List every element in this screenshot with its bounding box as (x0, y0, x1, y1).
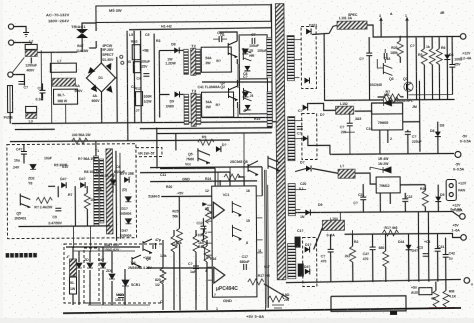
capacitor C12 (200, 226, 206, 229)
dashed box 2 (64, 244, 163, 303)
wire (88, 304, 150, 306)
diode D16 (76, 263, 82, 268)
capacitor C42 (443, 255, 449, 258)
capacitor C0 (18, 81, 24, 84)
diode D111 (305, 268, 310, 274)
wire (261, 167, 263, 196)
resistor R12 (136, 92, 143, 106)
wire (313, 227, 322, 249)
wire return rail (324, 32, 454, 100)
wire verticals into IC top (217, 172, 219, 186)
diode D107 (306, 165, 311, 171)
diode D102 (304, 77, 309, 83)
inductor L3 (26, 106, 37, 112)
wire bus2 (10, 140, 230, 142)
wire (9, 113, 11, 124)
resistor R101 (397, 41, 403, 57)
diode D19 (109, 274, 115, 279)
resistor R38 diagonal (268, 296, 284, 302)
diode column D13 (124, 177, 129, 183)
wire H1-H2 (129, 28, 271, 30)
wire (265, 170, 268, 308)
black tab N (298, 264, 304, 277)
resistor R32 (382, 230, 398, 236)
resistor R42 (443, 291, 449, 307)
transistor Q12 (143, 239, 152, 253)
resistor R10 box (132, 45, 140, 60)
wire (74, 186, 76, 226)
capacitor C102 (366, 53, 372, 56)
thermistor NTC (70, 259, 77, 276)
wire (312, 168, 338, 173)
dashed box 2 inner (84, 248, 99, 303)
capacitor C14 (193, 266, 199, 269)
wire (115, 151, 118, 241)
wire bus (295, 211, 452, 212)
wire BL drop (65, 104, 67, 123)
capacitor C18b (384, 53, 387, 59)
wire (140, 127, 272, 130)
diode D112 (406, 245, 412, 250)
wire (229, 172, 231, 186)
wire (312, 25, 337, 34)
capacitor C4 (143, 74, 149, 77)
thermistor box BL (53, 89, 77, 104)
diode D17 (87, 263, 93, 268)
capacitor C105 (405, 132, 411, 135)
capacitor C33 (435, 249, 441, 252)
diode D7 (80, 182, 85, 188)
capacitor C40 (21, 151, 27, 154)
wire main ground bus (63, 308, 461, 313)
resistor R37 (204, 246, 210, 262)
wire (379, 130, 381, 154)
resistor R26 (205, 207, 211, 223)
wire (355, 111, 372, 114)
transformer core T4 (275, 4, 285, 280)
wire (57, 186, 59, 197)
transistor Q1 (228, 41, 237, 57)
transistor Q102 (404, 82, 413, 91)
diode D101 (306, 28, 311, 34)
transistor Q3 (243, 48, 251, 61)
wire (387, 130, 389, 143)
wire vertical right of bridge (116, 57, 118, 123)
resistor R107 (383, 97, 399, 103)
primary winding W2 (267, 92, 272, 128)
wire (14, 26, 26, 32)
transistor Q11 (20, 193, 30, 207)
transistor Q6 (243, 88, 251, 101)
terminal +5V (461, 235, 467, 241)
shield dashed box 3 (303, 237, 317, 286)
black blob (295, 237, 301, 248)
diode D18 (100, 263, 106, 268)
inductor L101 (337, 21, 367, 29)
diode D21 (243, 92, 249, 97)
wire (18, 225, 110, 228)
wire (89, 47, 96, 49)
primary winding W1 (267, 38, 272, 78)
diode D6 (61, 182, 66, 188)
capacitor C17 (244, 264, 247, 270)
wire diag to earth (12, 57, 24, 72)
wire taps S2 (295, 121, 303, 139)
connector JP1 (446, 179, 456, 200)
capacitor C32 (423, 254, 429, 257)
wire (267, 185, 270, 308)
wire Q2 emitter (237, 108, 239, 117)
core T1 (106, 149, 113, 234)
wire short (15, 128, 55, 130)
dashed box 1 (7, 144, 137, 239)
resistor R103 (429, 49, 435, 65)
wire (48, 185, 55, 187)
red mark (429, 306, 455, 308)
wire (14, 42, 31, 44)
wire (72, 226, 74, 248)
wire (147, 267, 212, 269)
wire to +12V terminal (367, 24, 460, 37)
wire (175, 133, 177, 150)
capacitor C9 (252, 38, 255, 44)
resistor R7 (36, 197, 52, 203)
AC terminal L (8, 24, 13, 29)
bridge rectifier D1 (86, 63, 115, 92)
diode D103 (303, 105, 308, 111)
wire (95, 22, 97, 31)
transistor Q9 (232, 201, 241, 215)
inductor L2 (25, 44, 37, 49)
wire taps S1 (294, 40, 301, 78)
wire (380, 193, 390, 212)
wire (73, 250, 135, 252)
diode D8 (174, 47, 179, 53)
wire (403, 121, 420, 123)
wire under T2 box (202, 81, 272, 83)
wire (180, 93, 184, 95)
wire (214, 168, 216, 186)
diode D113 (305, 209, 310, 215)
transistor Q10 (232, 225, 241, 239)
transistor Q101 (383, 63, 392, 76)
wire (159, 50, 169, 117)
shield dashed box 2 (302, 113, 317, 159)
wire (229, 167, 231, 174)
terminal -5V (330, 152, 454, 155)
diode D15 (125, 219, 131, 224)
diode D109 (435, 197, 441, 202)
inductor L103 (338, 169, 355, 178)
wire (179, 49, 183, 51)
wire (119, 153, 122, 239)
wire (400, 184, 425, 186)
secondary winding S3 (288, 184, 295, 216)
AC terminal N (9, 40, 14, 45)
ground (23, 32, 29, 36)
resistor R17 (248, 279, 264, 285)
zener ZD2 (30, 164, 36, 169)
black tab (390, 311, 397, 315)
resistor R9 (198, 139, 214, 145)
regulator U3 79M12 (376, 177, 400, 193)
wire (308, 103, 336, 110)
capacitor C16 (118, 295, 124, 298)
wire lower bus of 12V cell (409, 93, 453, 95)
secondary winding S1 (287, 36, 294, 81)
diode D108 (383, 167, 391, 173)
terminal +12V2 (460, 214, 466, 220)
wire drops (415, 37, 417, 100)
wire (159, 49, 165, 51)
resistor R105 (385, 94, 401, 100)
wire (156, 128, 158, 169)
pin stubs left (207, 205, 213, 280)
resistor R30 (350, 246, 356, 262)
switch cell box A (239, 35, 267, 79)
wire bridge bottom (101, 92, 103, 123)
IC U1 uPC494C (212, 186, 257, 297)
wire (30, 57, 32, 63)
secondary winding S2 (288, 117, 295, 161)
box R40 (419, 288, 432, 295)
AC terminal E (8, 72, 13, 77)
diode D110 (305, 246, 310, 252)
caption CJK low voltage protection (6, 253, 37, 258)
diode D103b (303, 136, 308, 142)
secondary winding S4 (288, 244, 296, 279)
wire (308, 138, 330, 154)
node 3 (380, 19, 382, 37)
dashed VR box (136, 148, 162, 157)
switch cell box B (239, 79, 267, 114)
wire (161, 195, 211, 197)
diode D7b (110, 180, 116, 185)
transistor Q2 (228, 86, 237, 100)
wire Q1 emitter (237, 64, 239, 88)
capacitor C103 (449, 64, 455, 67)
wire (355, 173, 376, 184)
resistor R31 (383, 251, 389, 267)
wire +5V bus (345, 233, 461, 238)
diode D10 (244, 66, 250, 71)
fuse F1 (7, 86, 12, 113)
wire (140, 31, 143, 123)
resistor R34 (160, 268, 166, 284)
wire (150, 180, 257, 183)
wire output bus (286, 279, 461, 282)
diode D14 (125, 197, 131, 202)
wire (126, 31, 129, 141)
wire under T3 box (202, 117, 272, 119)
wire (133, 31, 136, 123)
wire (157, 132, 272, 135)
resistor R106 (422, 191, 428, 207)
diode D20 (242, 49, 248, 54)
wire (340, 212, 352, 234)
wire taps S3 (295, 190, 306, 210)
wire bridge right (115, 77, 116, 79)
capacitor C106 (360, 197, 366, 200)
capacitor C5 (55, 208, 61, 211)
resistor R24 (224, 174, 240, 180)
capacitor C1 (40, 90, 46, 93)
wire (95, 141, 97, 156)
wire L2 columns (41, 50, 52, 123)
resistor R35 (171, 236, 177, 252)
wire (140, 171, 230, 174)
winding bars (93, 156, 98, 226)
wire box bottom-right (331, 296, 406, 312)
node circle (120, 55, 123, 58)
resistor R25 (176, 228, 182, 244)
wire (427, 212, 429, 282)
terminal out5 (464, 278, 470, 284)
capacitor C31 (370, 247, 376, 250)
wire (95, 41, 97, 48)
scr SCR1 (122, 280, 129, 286)
diode D105 (384, 100, 392, 106)
resistor R27 (201, 232, 207, 248)
wire top of box (66, 246, 140, 248)
op-amp A2 (214, 267, 225, 283)
capacitor C104 (347, 123, 353, 126)
transistor Q8 (268, 156, 280, 171)
triac (76, 29, 88, 38)
diode D106 (435, 132, 441, 137)
box aux (133, 62, 140, 73)
diode D11 (245, 105, 251, 110)
capacitor C107 (402, 199, 408, 202)
wire (370, 167, 383, 170)
inductor L104 (322, 220, 344, 230)
wire main lower bus (12, 122, 276, 124)
transistor Q7 (198, 148, 210, 163)
wire (295, 169, 306, 172)
capacitor C30 (328, 249, 334, 252)
wire (264, 170, 267, 310)
wire (150, 166, 262, 169)
diode D12 (216, 146, 221, 152)
snubber box R14 (202, 92, 234, 117)
wire (243, 133, 245, 186)
shield dashed box 1 (301, 26, 316, 88)
node 1 (406, 19, 409, 99)
wire (418, 81, 420, 152)
diagonal wire (264, 284, 289, 299)
snubber box R13 (201, 47, 231, 72)
wire (89, 226, 91, 252)
wire (37, 51, 77, 53)
wires verticals (72, 247, 74, 305)
resistor R104 (436, 49, 442, 65)
resistor R41 (433, 291, 439, 307)
wire bridge top (100, 48, 102, 63)
capacitor C45 (219, 36, 222, 42)
transistor Q4b (132, 255, 141, 267)
wire (219, 180, 221, 186)
regulator U2 79M05 (372, 114, 403, 130)
wire primary rail (270, 4, 273, 122)
resistor R33 (70, 277, 77, 294)
inductor L102 (336, 106, 354, 114)
node circle (121, 61, 124, 64)
resistor R28 (84, 193, 90, 209)
wire (417, 212, 419, 282)
wire (13, 74, 24, 85)
op-amp A1 (213, 202, 224, 218)
resistor R102 (421, 49, 427, 65)
capacitor C13 (153, 243, 156, 249)
diode D104 (444, 55, 450, 60)
terminal +12V (460, 34, 466, 40)
resistor R6 inline (72, 138, 88, 144)
wire (160, 167, 215, 169)
resistor R36 (193, 236, 199, 252)
diode D9 (175, 91, 180, 97)
wire (153, 34, 156, 123)
top loop rectangle (96, 5, 271, 23)
capacitor C101 (297, 127, 303, 130)
pin stubs right (256, 196, 262, 253)
transistor Q8b (248, 161, 258, 175)
